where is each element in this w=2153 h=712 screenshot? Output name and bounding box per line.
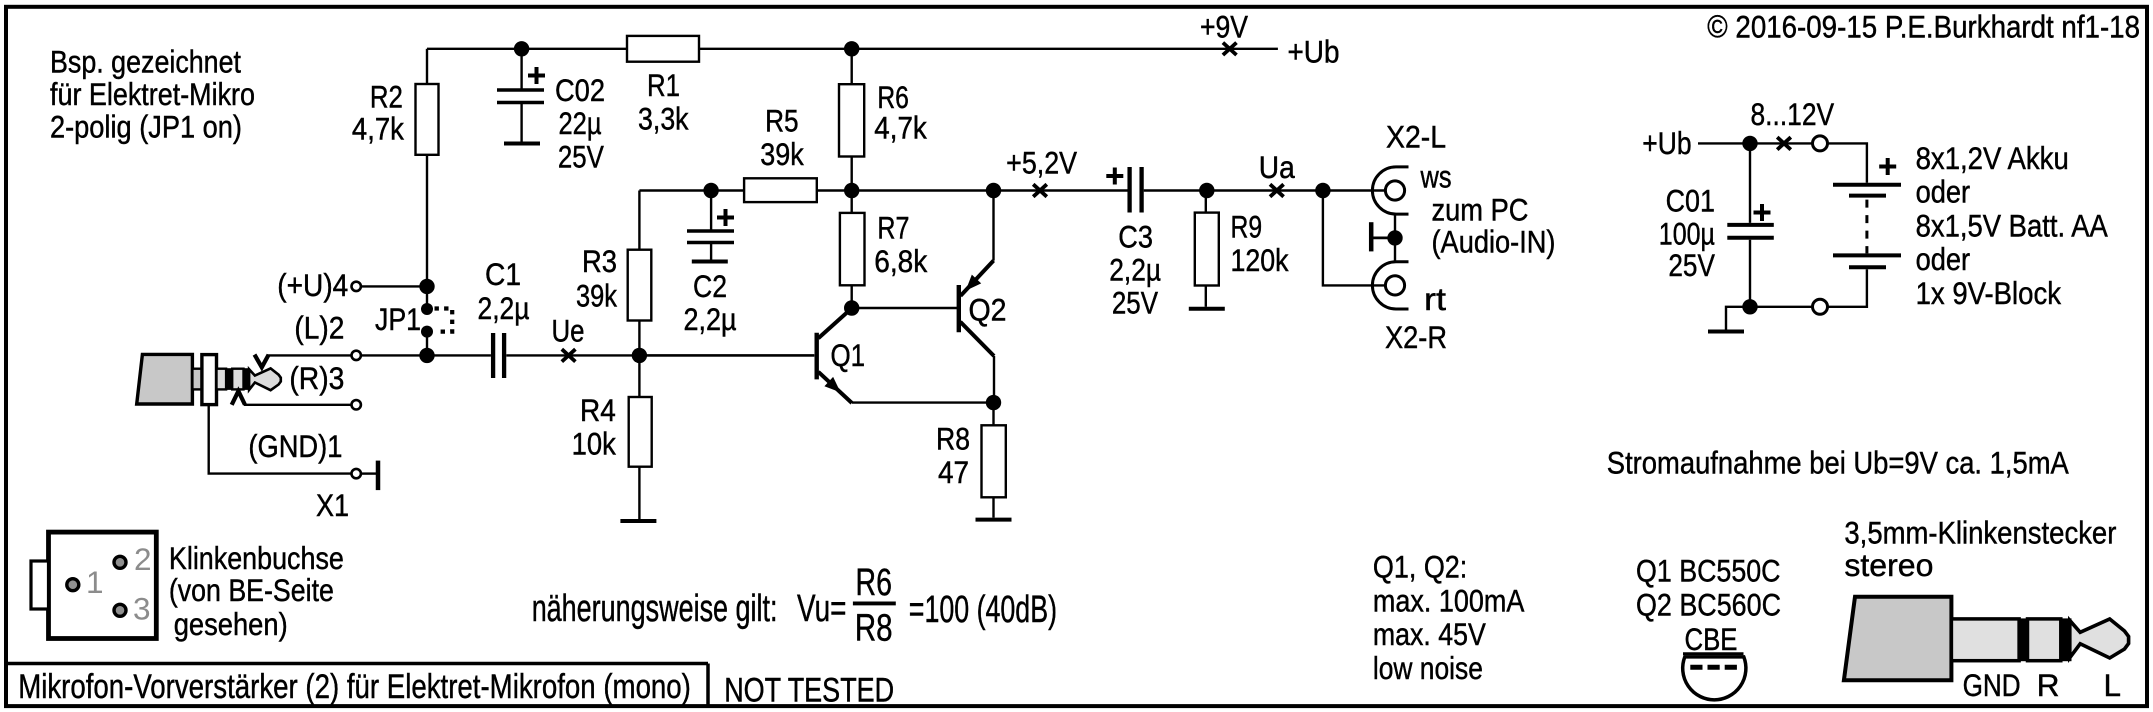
svg-text:1x 9V-Block: 1x 9V-Block [1916, 275, 2062, 311]
svg-text:Bsp. gezeichnet: Bsp. gezeichnet [50, 44, 241, 80]
measure point Ue [562, 349, 576, 361]
svg-text:2,2µ: 2,2µ [478, 290, 530, 326]
wire C1 to Q1 [506, 354, 814, 356]
svg-text:R6: R6 [856, 562, 892, 604]
wire R9 bottom [1205, 286, 1207, 307]
svg-text:2,2µ: 2,2µ [1109, 251, 1161, 287]
connector X1 bar [376, 461, 381, 491]
svg-text:C02: C02 [555, 72, 605, 108]
fraction bar [853, 601, 896, 605]
svg-text:Mikrofon-Vorverstärker (2) für: Mikrofon-Vorverstärker (2) für Elektret-… [18, 668, 691, 706]
wire R8 bottom [992, 497, 994, 517]
svg-text:(+U)4: (+U)4 [277, 267, 348, 303]
svg-text:Ua: Ua [1259, 149, 1295, 185]
battery cell1 [1833, 183, 1901, 187]
svg-text:(GND)1: (GND)1 [248, 428, 342, 464]
plug ring2 [2061, 619, 2071, 661]
resistor R9 [1195, 213, 1219, 286]
svg-text:2,2µ: 2,2µ [684, 301, 737, 337]
svg-text:Stromaufnahme bei Ub=9V ca. 1,: Stromaufnahme bei Ub=9V ca. 1,5mA [1607, 445, 2069, 481]
wire +Ub [1698, 142, 1743, 144]
mic plug shaft [217, 369, 227, 390]
svg-text:zum PC: zum PC [1432, 192, 1529, 228]
capacitor C01 [1749, 143, 1751, 223]
svg-text:22µ: 22µ [559, 105, 602, 141]
wire input L [267, 354, 352, 356]
svg-text:C01: C01 [1666, 182, 1715, 218]
svg-text:+Ub: +Ub [1288, 33, 1340, 69]
wire Q2 base [852, 307, 958, 309]
wire mid rail [817, 189, 1128, 191]
svg-text:39k: 39k [576, 278, 617, 314]
node (+U)4 [419, 279, 434, 294]
svg-text:R: R [2037, 667, 2060, 703]
ground R4 [620, 519, 656, 523]
svg-text:rt: rt [1424, 281, 1446, 317]
terminal battery - [1813, 299, 1828, 314]
node C2 [703, 183, 718, 198]
capacitor C02 [520, 49, 522, 90]
wire R2 top [426, 49, 428, 84]
wire Q1 emitter [852, 401, 994, 403]
wire R6 bottom [851, 157, 853, 191]
wire R8 top [992, 403, 994, 426]
jumper JP1 outline [435, 309, 453, 332]
svg-text:1: 1 [86, 564, 104, 600]
svg-text:R2: R2 [370, 78, 403, 114]
node R5-R6 [844, 183, 859, 198]
socket X2-R arc [1372, 262, 1408, 309]
wire X2 down [1323, 191, 1386, 286]
svg-text:+9V: +9V [1200, 8, 1248, 44]
socket X2-R pin [1385, 276, 1404, 295]
mic plug collar [202, 355, 217, 405]
svg-text:R7: R7 [877, 210, 909, 246]
node C01 bottom [1742, 299, 1757, 314]
socket pin 1 [67, 579, 79, 591]
svg-text:2-polig (JP1 on): 2-polig (JP1 on) [50, 109, 242, 145]
plug seg [2028, 619, 2061, 661]
node Q2 emitter rail [986, 183, 1001, 198]
svg-text:+Ub: +Ub [1642, 125, 1691, 161]
socket X2-L pin [1385, 181, 1404, 200]
title box [8, 662, 708, 666]
svg-text:8...12V: 8...12V [1751, 96, 1835, 132]
mic plug neck [192, 369, 202, 390]
wire R4 bottom [638, 467, 640, 519]
svg-text:L: L [2104, 667, 2122, 703]
mic plug ring1 [226, 369, 232, 390]
transistor Q1 base bar [815, 333, 819, 380]
node Q1E-R8 [986, 395, 1001, 410]
plug body [1844, 597, 1952, 681]
node rail-R6 [844, 41, 859, 56]
wire input R [244, 404, 351, 406]
svg-text:oder: oder [1916, 174, 1971, 210]
wire battery top [1828, 143, 1867, 182]
svg-text:Ue: Ue [552, 312, 585, 348]
svg-text:39k: 39k [760, 136, 804, 172]
capacitor C3 [1127, 167, 1131, 213]
svg-text:25V: 25V [1112, 285, 1158, 321]
svg-text:3: 3 [133, 591, 151, 627]
CBE underline [1683, 652, 1744, 655]
svg-text:stereo: stereo [1844, 547, 1933, 583]
capacitor C1 [491, 333, 495, 378]
ground R8 [976, 518, 1012, 522]
node R7-Q1C-Q2B [844, 300, 859, 315]
wire Q1 base [639, 354, 814, 356]
transistor Q2 base bar [957, 285, 961, 332]
socket drawing box [49, 532, 157, 638]
svg-text:für Elektret-Mikro: für Elektret-Mikro [50, 76, 255, 112]
mic plug tip [249, 368, 281, 390]
wire gnd power [1726, 307, 1750, 330]
wire +Ub rail [427, 48, 627, 50]
measure point 8..12V [1777, 137, 1791, 149]
svg-text:Q1 BC550C: Q1 BC550C [1636, 553, 1781, 589]
measure point +9V [1223, 43, 1237, 55]
svg-text:Klinkenbuchse: Klinkenbuchse [169, 540, 344, 576]
terminal (+U)4 [352, 282, 361, 291]
svg-text:25V: 25V [1668, 247, 1715, 283]
X2 switch contact [1369, 222, 1374, 251]
resistor R6 [839, 84, 864, 156]
svg-text:C3: C3 [1118, 218, 1153, 254]
svg-text:R4: R4 [580, 392, 616, 428]
svg-text:R3: R3 [582, 243, 617, 279]
svg-text:(R)3: (R)3 [289, 360, 344, 396]
svg-text:R8: R8 [936, 421, 970, 457]
plug tip [2070, 619, 2129, 658]
svg-text:NOT TESTED: NOT TESTED [724, 672, 894, 710]
terminal (R)3 [352, 400, 361, 409]
svg-text:Q2: Q2 [969, 291, 1007, 327]
svg-text:(L)2: (L)2 [294, 310, 344, 346]
svg-text:JP1: JP1 [375, 301, 421, 337]
svg-text:8x1,2V Akku: 8x1,2V Akku [1916, 140, 2069, 176]
wire Q2 collector down [993, 356, 995, 403]
svg-text:120k: 120k [1231, 242, 1289, 278]
node rail-C02 [514, 41, 529, 56]
svg-text:C1: C1 [485, 256, 521, 292]
svg-text:C2: C2 [693, 268, 727, 304]
svg-text:Q2 BC560C: Q2 BC560C [1636, 587, 1781, 623]
wire R3 top [638, 191, 640, 250]
svg-text:R1: R1 [647, 67, 680, 103]
wire R7 bottom [851, 285, 853, 308]
node R3-R4-base [632, 348, 647, 363]
measure point +5,2V [1033, 184, 1047, 196]
svg-text:max. 100mA: max. 100mA [1373, 582, 1525, 618]
terminal battery + [1813, 136, 1828, 151]
svg-text:Q1: Q1 [831, 337, 866, 373]
wire to gnd node [1750, 306, 1813, 308]
transistor Q2 collector [960, 322, 994, 356]
TO-92 case [1683, 657, 1746, 700]
mic plug ring2 [244, 369, 250, 390]
svg-text:gesehen): gesehen) [174, 606, 288, 642]
svg-text:oder: oder [1916, 241, 1971, 277]
wire mid rail left [639, 189, 745, 191]
ground C2 [692, 260, 728, 264]
ground R9 [1189, 307, 1225, 311]
transistor Q1 collector [818, 308, 851, 338]
svg-text:max. 45V: max. 45V [1373, 616, 1486, 652]
svg-text:2: 2 [134, 541, 152, 577]
wire X2 middle [1394, 214, 1396, 262]
svg-text:ws: ws [1420, 159, 1452, 195]
node C01 top [1742, 136, 1757, 151]
mic plug body [137, 354, 193, 404]
transistor Q1 emitter [818, 372, 852, 403]
node X2 middle [1387, 230, 1402, 245]
terminal (L)2 [352, 351, 361, 360]
ground power [1708, 330, 1744, 334]
svg-text:X2-R: X2-R [1385, 319, 1447, 355]
svg-text:(Audio-IN): (Audio-IN) [1432, 223, 1556, 259]
wire to C1 [427, 354, 491, 356]
battery dashed [1865, 200, 1868, 254]
svg-text:X2-L: X2-L [1386, 118, 1446, 154]
resistor R8 [982, 425, 1006, 497]
svg-text:10k: 10k [572, 426, 616, 462]
plug shaft [1951, 619, 2019, 661]
svg-text:3,3k: 3,3k [638, 101, 689, 137]
contact L [255, 355, 269, 368]
resistor R2 [416, 84, 439, 155]
resistor R4 [629, 397, 652, 467]
node input [419, 348, 434, 363]
svg-text:3,5mm-Klinkenstecker: 3,5mm-Klinkenstecker [1844, 515, 2116, 551]
wire GND stub [361, 472, 376, 474]
svg-text:4,7k: 4,7k [874, 110, 927, 146]
battery cell2 [1833, 253, 1901, 257]
svg-text:Q1, Q2:: Q1, Q2: [1373, 549, 1467, 585]
node X2 [1315, 183, 1330, 198]
svg-text:© 2016-09-15 P.E.Burkhardt nf1: © 2016-09-15 P.E.Burkhardt nf1-18 [1707, 8, 2140, 44]
terminal (GND)1 [352, 469, 361, 478]
plug ring1 [2019, 619, 2027, 661]
resistor R1 [627, 36, 699, 62]
wire Q2 emitter up [992, 191, 994, 261]
socket pin 3 [114, 604, 126, 616]
socket X2-L arc [1372, 167, 1408, 214]
mic plug seg [232, 369, 243, 390]
wire R7 top [851, 191, 853, 213]
svg-text:R8: R8 [855, 607, 893, 649]
wire C3 right [1144, 189, 1386, 191]
resistor R7 [840, 213, 865, 285]
resistor R5 [744, 178, 817, 202]
svg-text:8x1,5V Batt. AA: 8x1,5V Batt. AA [1916, 207, 2108, 243]
svg-text:(von BE-Seite: (von BE-Seite [169, 572, 334, 608]
svg-text:4,7k: 4,7k [352, 111, 404, 147]
wire R4 top [638, 355, 640, 397]
svg-text:25V: 25V [558, 139, 604, 175]
resistor R3 [628, 250, 652, 321]
transistor Q2 emitter [961, 261, 994, 296]
svg-text:X1: X1 [316, 487, 349, 523]
contact R [232, 391, 245, 405]
socket drawing tab [31, 561, 49, 609]
jumper JP1 pins [421, 303, 433, 315]
svg-text:Vu=: Vu= [797, 588, 846, 630]
node R9 [1199, 183, 1214, 198]
svg-text:=100 (40dB): =100 (40dB) [909, 589, 1057, 631]
wire R6 top [851, 49, 853, 84]
ground C02 [504, 142, 540, 146]
socket pin 2 [114, 556, 126, 568]
svg-text:+5,2V: +5,2V [1006, 144, 1077, 180]
svg-text:47: 47 [938, 454, 969, 490]
wire R3 bottom [638, 321, 640, 356]
wire R2 bottom / JP1 column [426, 155, 428, 310]
wire battery bottom [1828, 269, 1867, 307]
svg-text:GND: GND [1963, 667, 2021, 703]
measure point Ua [1270, 184, 1284, 196]
wire R9 top [1205, 191, 1207, 213]
wire (+U)4 [361, 285, 427, 287]
wire L to JP1 [361, 354, 427, 356]
svg-text:low noise: low noise [1373, 650, 1483, 686]
wire GND [209, 406, 352, 474]
svg-text:R9: R9 [1231, 208, 1263, 244]
svg-text:näherungsweise gilt:: näherungsweise gilt: [532, 588, 778, 630]
wire to plug [1758, 142, 1813, 144]
svg-text:R5: R5 [765, 103, 799, 139]
svg-text:CBE: CBE [1685, 621, 1738, 657]
svg-text:6,8k: 6,8k [874, 243, 927, 279]
capacitor C2 [710, 191, 712, 230]
